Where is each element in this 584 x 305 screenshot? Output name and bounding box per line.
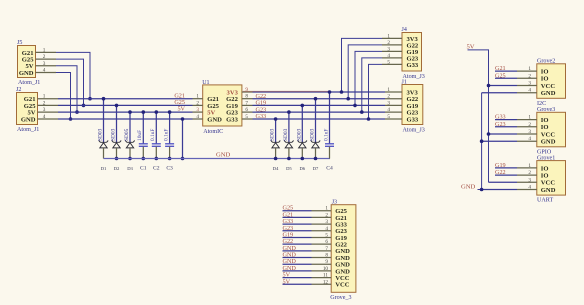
- junction: [360, 110, 364, 114]
- wire G21 bus: [58, 98, 193, 100]
- junction: [301, 157, 305, 161]
- svg-text:9: 9: [245, 87, 248, 93]
- junction: [487, 84, 491, 88]
- ground rail GND: [104, 158, 331, 160]
- svg-text:VCC: VCC: [335, 282, 350, 289]
- svg-text:3: 3: [528, 81, 531, 87]
- svg-text:4: 4: [196, 114, 199, 120]
- Grove2 pin 2: [517, 77, 537, 79]
- svg-text:Atom_J1: Atom_J1: [18, 80, 40, 86]
- Grove1 pin 2: [517, 174, 537, 176]
- junction: [287, 157, 291, 161]
- diode D6 SD03: [301, 105, 303, 142]
- J4 pin 2: [382, 44, 402, 46]
- svg-text:GND: GND: [19, 70, 34, 77]
- svg-text:9: 9: [325, 259, 328, 265]
- svg-text:7: 7: [325, 246, 328, 252]
- svg-text:1: 1: [196, 94, 199, 100]
- svg-text:SD05: SD05: [124, 128, 130, 141]
- connector J5: [18, 46, 36, 78]
- svg-text:3: 3: [43, 107, 46, 113]
- wire GND to Grove3 GND: [482, 140, 517, 142]
- svg-text:7: 7: [245, 100, 248, 106]
- capacitor C1 10uF: [142, 112, 144, 143]
- junction: [328, 90, 332, 94]
- svg-text:12: 12: [323, 279, 329, 285]
- svg-text:4: 4: [43, 68, 46, 74]
- junction: [181, 117, 185, 121]
- U1 pin 3: [193, 111, 203, 113]
- svg-text:Grove_3: Grove_3: [330, 295, 351, 301]
- junction: [142, 157, 146, 161]
- U1 pin 9: [242, 91, 253, 93]
- svg-text:3: 3: [528, 129, 531, 135]
- J3 pin 8: [312, 257, 332, 259]
- J1 pin 5: [385, 118, 402, 120]
- junction: [353, 104, 357, 108]
- svg-text:GND: GND: [461, 183, 476, 190]
- J5 pin 3: [36, 65, 57, 67]
- svg-text:6: 6: [245, 107, 248, 113]
- J2 pin 3: [38, 111, 59, 113]
- svg-text:IO: IO: [541, 124, 549, 131]
- wire G23 to J3 pin 4: [283, 230, 312, 232]
- Grove3 pin 1: [517, 119, 537, 121]
- svg-text:G25: G25: [495, 72, 506, 79]
- junction: [367, 117, 371, 121]
- J3 pin 10: [312, 270, 332, 272]
- J2 pin 2: [38, 104, 59, 106]
- wire J5 pin 1 to bus: [56, 52, 90, 98]
- svg-text:G22: G22: [495, 169, 506, 176]
- wire J4 pin 3 to bus: [355, 51, 382, 105]
- wire G23 bus: [253, 111, 386, 113]
- svg-text:D2: D2: [114, 166, 120, 171]
- svg-text:5: 5: [387, 114, 390, 120]
- svg-text:4: 4: [387, 53, 390, 59]
- wire G19 bus: [253, 104, 386, 106]
- svg-text:2: 2: [43, 54, 46, 60]
- wire GND drop to rail: [182, 119, 184, 159]
- J4 pin 1: [382, 37, 402, 39]
- svg-text:C3: C3: [166, 166, 173, 172]
- junction: [480, 139, 484, 143]
- svg-text:Grove2: Grove2: [537, 59, 555, 65]
- wire GND to J3 pin 10: [283, 270, 312, 272]
- svg-text:U1: U1: [202, 80, 209, 86]
- junction: [69, 117, 73, 121]
- svg-text:5V: 5V: [177, 106, 185, 113]
- svg-text:1: 1: [325, 206, 328, 212]
- wire J4 pin 2 to bus: [348, 45, 382, 99]
- svg-text:IO: IO: [541, 117, 549, 124]
- svg-text:SD03: SD03: [283, 128, 289, 141]
- svg-text:D4: D4: [273, 166, 279, 171]
- svg-text:Atom_J1: Atom_J1: [17, 127, 39, 133]
- svg-text:4: 4: [43, 114, 46, 120]
- connector Grove2: [537, 64, 566, 99]
- svg-text:C4: C4: [326, 166, 333, 172]
- wire 5V to J3 pin 12: [283, 283, 312, 285]
- wire 5V to J3 pin 11: [283, 277, 312, 279]
- svg-text:3: 3: [325, 219, 328, 225]
- svg-text:UART: UART: [537, 198, 553, 204]
- svg-text:G33: G33: [226, 116, 238, 123]
- wire G25 to J3 pin 1: [283, 210, 312, 212]
- wire G22 to J3 pin 6: [283, 243, 312, 245]
- U1 pin 1: [193, 98, 203, 100]
- wire 3V3 bus: [253, 91, 386, 93]
- svg-text:G19: G19: [495, 162, 506, 169]
- svg-text:J5: J5: [17, 40, 22, 46]
- J1 pin 3: [385, 104, 402, 106]
- J3 pin 5: [312, 236, 332, 238]
- junction: [181, 157, 185, 161]
- J3 pin 11: [312, 277, 332, 279]
- svg-text:J4: J4: [402, 27, 407, 33]
- svg-text:1: 1: [528, 115, 531, 121]
- wire G22 to Grove1 pin 2: [495, 174, 517, 176]
- J3 pin 1: [312, 210, 332, 212]
- connector J1: [402, 85, 423, 125]
- svg-text:D7: D7: [313, 166, 319, 171]
- svg-text:IO: IO: [541, 76, 549, 83]
- junction: [115, 157, 119, 161]
- svg-text:J2: J2: [16, 87, 21, 93]
- ground net GND: [478, 93, 482, 190]
- wire G25 bus: [58, 104, 193, 106]
- wire G23 to Grove3 pin 2: [495, 126, 517, 128]
- svg-text:4: 4: [387, 107, 390, 113]
- svg-text:2: 2: [325, 212, 328, 218]
- svg-text:10: 10: [323, 266, 329, 272]
- wire 5V to Grove1 VCC: [489, 181, 518, 183]
- svg-text:1: 1: [528, 66, 531, 72]
- wire J4 pin 4 to bus: [362, 58, 382, 112]
- junction: [102, 97, 106, 101]
- diode D4 SD03: [275, 119, 277, 142]
- svg-text:G23: G23: [495, 121, 506, 128]
- svg-text:10uF: 10uF: [137, 130, 143, 141]
- svg-text:SD03: SD03: [98, 128, 104, 141]
- wire GND to J3 pin 9: [283, 263, 312, 265]
- op-amp U1 AtomIC: [203, 85, 242, 126]
- junction: [314, 157, 318, 161]
- connector Grove3: [537, 112, 566, 147]
- svg-text:Grove3: Grove3: [537, 107, 555, 113]
- svg-text:GPIO: GPIO: [537, 149, 552, 155]
- svg-text:5: 5: [325, 232, 328, 238]
- Grove2 pin 1: [517, 70, 537, 72]
- J2 pin 4: [38, 118, 59, 120]
- U1 pin 6: [242, 111, 253, 113]
- svg-text:Grove1: Grove1: [537, 155, 555, 161]
- svg-text:Atom_J3: Atom_J3: [403, 128, 425, 134]
- wire J5 pin 2 to bus: [56, 59, 84, 105]
- svg-text:2: 2: [528, 73, 531, 79]
- svg-text:5V: 5V: [283, 278, 291, 285]
- Grove1 pin 1: [517, 167, 537, 169]
- diode D3 SD03: [129, 112, 131, 142]
- svg-text:5V: 5V: [467, 44, 475, 51]
- svg-text:1: 1: [387, 33, 390, 39]
- junction: [274, 117, 278, 121]
- svg-text:1: 1: [528, 163, 531, 169]
- svg-text:4: 4: [528, 136, 531, 142]
- U1 pin 8: [242, 98, 253, 100]
- svg-text:IO: IO: [541, 165, 549, 172]
- Grove1 pin 3: [517, 181, 537, 183]
- junction: [142, 110, 146, 114]
- junction: [82, 104, 86, 108]
- junction: [346, 97, 350, 101]
- svg-text:J1: J1: [402, 80, 407, 86]
- svg-text:0.1uF: 0.1uF: [150, 129, 156, 141]
- J4 pin 3: [382, 50, 402, 52]
- svg-text:3: 3: [528, 177, 531, 183]
- svg-text:SD03: SD03: [270, 128, 276, 141]
- svg-text:C2: C2: [153, 166, 160, 172]
- J3 pin 2: [312, 216, 332, 218]
- svg-text:1: 1: [387, 87, 390, 93]
- junction: [155, 157, 159, 161]
- svg-text:3: 3: [196, 107, 199, 113]
- svg-text:J3: J3: [332, 200, 337, 206]
- wire G19 to Grove1 pin 1: [495, 167, 517, 169]
- svg-text:2: 2: [387, 94, 390, 100]
- J5 pin 4: [36, 72, 57, 74]
- capacitor C3 0.1uF: [169, 112, 171, 143]
- svg-text:VCC: VCC: [541, 180, 556, 187]
- wire G33 to Grove3 pin 1: [495, 119, 517, 121]
- red tint on 3V3 wire: [243, 90, 330, 92]
- svg-text:IO: IO: [541, 173, 549, 180]
- J3 pin 6: [312, 243, 332, 245]
- svg-text:G33: G33: [495, 114, 506, 121]
- junction: [301, 104, 305, 108]
- J3 pin 12: [312, 283, 332, 285]
- svg-text:SD03: SD03: [296, 128, 302, 141]
- connector Grove1: [537, 161, 566, 196]
- svg-text:C1: C1: [140, 166, 147, 172]
- svg-text:3: 3: [387, 46, 390, 52]
- svg-text:1: 1: [43, 94, 46, 100]
- svg-text:GND: GND: [216, 151, 231, 158]
- wire GND bus: [58, 118, 193, 120]
- svg-text:2: 2: [387, 40, 390, 46]
- svg-text:1: 1: [43, 47, 46, 53]
- Grove3 pin 3: [517, 133, 537, 135]
- svg-text:5: 5: [387, 59, 390, 65]
- svg-text:0.1uF: 0.1uF: [163, 129, 169, 141]
- svg-text:D6: D6: [299, 166, 305, 171]
- wire J5 pin 3 to bus: [56, 66, 77, 112]
- svg-text:G21: G21: [495, 65, 506, 72]
- diode D7 SD03: [315, 99, 317, 143]
- svg-text:11: 11: [323, 273, 328, 279]
- svg-text:2: 2: [528, 170, 531, 176]
- svg-text:G33: G33: [407, 62, 419, 69]
- svg-text:AtomIC: AtomIC: [203, 129, 223, 135]
- svg-text:SD03: SD03: [111, 128, 117, 141]
- wire GND to Grove2 GND: [482, 92, 517, 94]
- wire GND to J3 pin 7: [283, 250, 312, 252]
- J1 pin 2: [385, 98, 402, 100]
- svg-text:I2C: I2C: [537, 101, 546, 107]
- U1 pin 5: [242, 118, 253, 120]
- connector J2: [17, 93, 38, 125]
- J3 pin 9: [312, 263, 332, 265]
- J3 pin 4: [312, 230, 332, 232]
- diode D2 SD03: [116, 105, 118, 142]
- wire J4 pin 1 to bus: [342, 38, 383, 92]
- J4 pin 4: [382, 57, 402, 59]
- svg-text:0.1uF: 0.1uF: [323, 129, 329, 141]
- wire G21 to J3 pin 2: [283, 216, 312, 218]
- svg-text:VCC: VCC: [541, 131, 556, 138]
- svg-text:2: 2: [43, 100, 46, 106]
- svg-text:GND: GND: [21, 116, 36, 123]
- svg-text:GND: GND: [207, 116, 222, 123]
- svg-text:GND: GND: [541, 187, 556, 194]
- svg-text:GND: GND: [541, 90, 556, 97]
- svg-text:4: 4: [325, 226, 328, 232]
- Grove3 pin 2: [517, 126, 537, 128]
- svg-text:3: 3: [43, 61, 46, 67]
- junction: [340, 90, 344, 94]
- J5 pin 1: [36, 51, 57, 53]
- junction: [88, 97, 92, 101]
- svg-text:SD03: SD03: [310, 128, 316, 141]
- diode D5 SD03: [288, 112, 290, 142]
- svg-text:D3: D3: [127, 166, 133, 171]
- svg-text:G33: G33: [256, 113, 267, 120]
- J1 pin 4: [385, 111, 402, 113]
- svg-text:4: 4: [528, 88, 531, 94]
- wire 5V to Grove3 VCC: [489, 133, 518, 135]
- svg-text:4: 4: [528, 185, 531, 191]
- J1 pin 1: [385, 91, 402, 93]
- junction: [314, 97, 318, 101]
- svg-text:D5: D5: [286, 166, 292, 171]
- Grove2 pin 3: [517, 85, 537, 87]
- junction: [128, 157, 132, 161]
- svg-text:D1: D1: [101, 166, 107, 171]
- U1 pin 2: [193, 104, 203, 106]
- svg-text:G33: G33: [407, 116, 419, 123]
- wire GND to Grove1 GND: [482, 189, 517, 191]
- svg-text:6: 6: [325, 239, 328, 245]
- svg-text:3: 3: [387, 100, 390, 106]
- diode D1 SD03: [103, 99, 105, 143]
- wire GND to J3 pin 8: [283, 257, 312, 259]
- wire J4 pin 5 to bus: [369, 64, 383, 119]
- svg-text:GND: GND: [541, 139, 556, 146]
- svg-text:IO: IO: [541, 69, 549, 76]
- svg-text:5: 5: [245, 114, 248, 120]
- wire G19 to J3 pin 5: [283, 236, 312, 238]
- Grove3 pin 4: [517, 140, 537, 142]
- junction: [115, 104, 119, 108]
- junction: [168, 110, 172, 114]
- connector J4: [402, 33, 422, 72]
- junction: [274, 157, 278, 161]
- power net 5V: [468, 50, 489, 182]
- junction: [75, 110, 79, 114]
- wire G25 to Grove2 pin 2: [495, 77, 517, 79]
- junction: [128, 110, 132, 114]
- junction: [480, 188, 484, 192]
- J3 pin 7: [312, 250, 332, 252]
- wire G33 to J3 pin 3: [283, 223, 312, 225]
- wire G21 to Grove2 pin 1: [495, 70, 517, 72]
- svg-text:VCC: VCC: [541, 83, 556, 90]
- Grove2 pin 4: [517, 92, 537, 94]
- U1 pin 4: [193, 118, 203, 120]
- U1 pin 7: [242, 104, 253, 106]
- J5 pin 2: [36, 58, 57, 60]
- svg-text:2: 2: [528, 122, 531, 128]
- junction: [168, 157, 172, 161]
- Grove1 pin 4: [517, 189, 537, 191]
- wire J5 pin 4 to bus: [56, 73, 71, 120]
- wire G22 bus: [253, 98, 386, 100]
- J3 pin 3: [312, 223, 332, 225]
- capacitor C4 0.1uF: [329, 92, 331, 144]
- capacitor C2 0.1uF: [155, 112, 157, 143]
- svg-text:8: 8: [325, 253, 328, 259]
- junction: [287, 110, 291, 114]
- svg-text:2: 2: [196, 100, 199, 106]
- junction: [487, 132, 491, 136]
- J2 pin 1: [38, 98, 59, 100]
- junction: [155, 110, 159, 114]
- wire 5V to Grove2 VCC: [489, 85, 518, 87]
- svg-text:8: 8: [245, 94, 248, 100]
- connector J3: [331, 205, 356, 293]
- J4 pin 5: [382, 63, 402, 65]
- wire 5V bus: [58, 111, 193, 113]
- wire G33 bus: [253, 118, 386, 120]
